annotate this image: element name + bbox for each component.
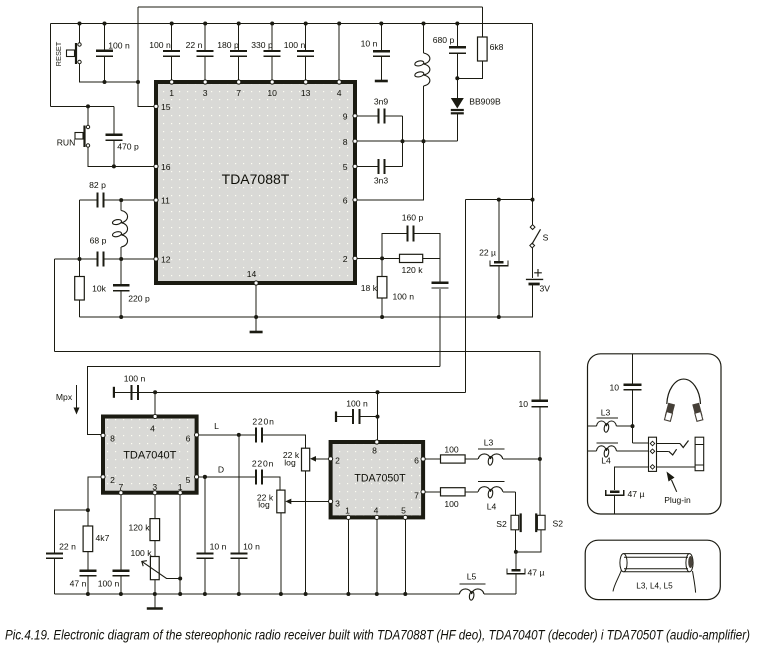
svg-text:5: 5 bbox=[343, 162, 348, 172]
jack contact 2 bbox=[657, 450, 669, 452]
svg-text:10: 10 bbox=[267, 88, 277, 98]
node rail 87.9 bbox=[86, 592, 90, 596]
node panel L3 bbox=[631, 424, 635, 428]
resistor 4k7 bbox=[87, 510, 89, 526]
svg-text:TDA7040T: TDA7040T bbox=[123, 450, 176, 462]
svg-text:1: 1 bbox=[345, 506, 350, 516]
pin U1-10 bbox=[270, 80, 274, 84]
pin U1-15 bbox=[154, 104, 158, 108]
pin U1-2 bbox=[353, 256, 357, 260]
arrow mpx bbox=[76, 385, 78, 410]
svg-text:log: log bbox=[284, 457, 296, 467]
IC U2 TDA7040T body bbox=[103, 417, 197, 493]
svg-text:L3: L3 bbox=[484, 438, 494, 448]
svg-text:5: 5 bbox=[401, 506, 406, 516]
svg-text:47 n: 47 n bbox=[70, 579, 87, 589]
plug body bbox=[695, 437, 704, 471]
inductor L1 tank bbox=[120, 200, 122, 210]
svg-text:7: 7 bbox=[236, 88, 241, 98]
svg-text:680 p: 680 p bbox=[433, 35, 455, 45]
svg-text:9: 9 bbox=[343, 112, 348, 122]
node rail 305.6 bbox=[304, 592, 308, 596]
inductor L2 VCO bbox=[423, 24, 425, 54]
capacitor 100n U2 pin7 bbox=[120, 493, 122, 570]
wire u2 pin4 bbox=[154, 392, 156, 416]
svg-text:6: 6 bbox=[186, 434, 191, 444]
node bus-c1 bbox=[103, 22, 107, 26]
node s2 join bbox=[514, 550, 518, 554]
svg-text:Mpx: Mpx bbox=[56, 392, 73, 402]
wire pin6 bbox=[355, 141, 424, 200]
jack socket bbox=[649, 437, 657, 471]
wire u3 pin5 gnd bbox=[404, 517, 406, 594]
svg-text:3: 3 bbox=[335, 499, 340, 509]
wire batt-gnd bbox=[532, 285, 534, 318]
capacitor 10n D bbox=[204, 477, 206, 552]
svg-text:220 p: 220 p bbox=[128, 294, 150, 304]
capacitor 100 n at U1 pin bbox=[171, 24, 173, 50]
svg-text:220n: 220n bbox=[252, 417, 274, 427]
pin U1-8 bbox=[353, 139, 357, 143]
pin U2-2 bbox=[101, 475, 105, 479]
resistor 100 R bbox=[423, 491, 440, 493]
wire 120k-right bbox=[423, 257, 440, 259]
svg-text:1: 1 bbox=[169, 88, 174, 98]
svg-text:4: 4 bbox=[374, 506, 379, 516]
svg-text:47 µ: 47 µ bbox=[528, 568, 545, 578]
capacitor 22u bbox=[498, 200, 500, 262]
svg-text:100 k: 100 k bbox=[130, 548, 152, 558]
capacitor 100n mpx bbox=[439, 258, 441, 281]
capacitor 220p bbox=[120, 259, 122, 284]
wire D out bbox=[197, 476, 255, 478]
svg-text:3n9: 3n9 bbox=[374, 97, 389, 107]
capacitor 22 n at U1 pin bbox=[204, 24, 206, 50]
capacitor 100n U3 vcc bbox=[335, 412, 337, 423]
svg-text:S: S bbox=[543, 233, 549, 243]
wire left rail bbox=[50, 24, 52, 107]
pin U2-6 bbox=[195, 433, 199, 437]
capacitor C2 470p bbox=[113, 106, 115, 133]
pin U2-7 bbox=[119, 491, 123, 495]
switch RUN bbox=[83, 126, 85, 148]
svg-text:68 p: 68 p bbox=[90, 236, 107, 246]
pin U1-12 bbox=[154, 257, 158, 261]
capacitor 160p loop bbox=[382, 234, 406, 259]
inductor L4 panel bbox=[588, 450, 597, 452]
pin U3-1 bbox=[346, 515, 350, 519]
svg-text:22 n: 22 n bbox=[59, 542, 76, 552]
svg-text:47 µ: 47 µ bbox=[628, 489, 645, 499]
node u2 pin4 junction bbox=[153, 390, 157, 394]
wire reset top stub bbox=[79, 24, 81, 43]
capacitor 10n L bbox=[238, 435, 240, 552]
wire pin8 bbox=[355, 140, 457, 142]
battery 3V bbox=[526, 278, 543, 280]
wire pin15 top loop bbox=[138, 6, 482, 8]
capacitor 47n bbox=[79, 570, 96, 572]
wire pin2 bbox=[355, 257, 400, 259]
capacitor 47u panel bbox=[610, 490, 619, 493]
node c2 bottom bbox=[112, 164, 116, 168]
svg-text:3V: 3V bbox=[540, 284, 551, 294]
svg-text:4k7: 4k7 bbox=[96, 533, 110, 543]
svg-text:3n3: 3n3 bbox=[374, 176, 389, 186]
svg-text:100 n: 100 n bbox=[392, 292, 414, 302]
arrow plug-in bbox=[672, 480, 677, 492]
svg-text:100 n: 100 n bbox=[98, 579, 120, 589]
wire u2 pin1 bbox=[179, 493, 181, 594]
capacitor 220n L bbox=[255, 427, 257, 442]
svg-text:8: 8 bbox=[343, 137, 348, 147]
wire run top bbox=[51, 105, 114, 107]
svg-text:11: 11 bbox=[161, 196, 170, 206]
node rail 180.2 bbox=[178, 592, 182, 596]
node pin2-18k bbox=[380, 256, 384, 260]
wire pin14 ground bbox=[255, 283, 257, 332]
pin U1-11 bbox=[154, 198, 158, 202]
node varactor top bbox=[455, 76, 459, 80]
svg-text:L5: L5 bbox=[467, 572, 477, 582]
svg-text:100 n: 100 n bbox=[124, 374, 146, 384]
svg-text:14: 14 bbox=[247, 269, 257, 279]
diode BB909B varactor bbox=[456, 78, 458, 98]
jack contact 1 bbox=[657, 443, 681, 445]
node rail 238.8 bbox=[237, 592, 241, 596]
svg-text:220n: 220n bbox=[252, 459, 274, 469]
svg-text:22 µ: 22 µ bbox=[479, 248, 496, 258]
capacitor 10u phones bbox=[532, 400, 549, 402]
ferrite rod bbox=[624, 554, 690, 572]
wire VCC bus bbox=[51, 23, 533, 25]
wire run stub bbox=[87, 106, 89, 125]
speaker S2 right bbox=[539, 459, 541, 515]
capacitor 3n3 bbox=[355, 165, 377, 167]
wire to pin15 bbox=[138, 7, 156, 106]
pin U2-5 bbox=[195, 475, 199, 479]
wire u3 pin4 gnd bbox=[376, 517, 378, 594]
svg-text:2: 2 bbox=[343, 254, 348, 264]
pin U3-4 bbox=[375, 515, 379, 519]
capacitor C1 100n (reset) bbox=[104, 24, 106, 50]
svg-text:8: 8 bbox=[372, 446, 377, 456]
potentiometer 22k log L bbox=[302, 448, 310, 471]
svg-text:2: 2 bbox=[335, 456, 340, 466]
pin U1-13 bbox=[304, 80, 308, 84]
panel headphones box bbox=[588, 354, 722, 514]
node rail 120.9 bbox=[119, 592, 123, 596]
svg-text:330 p: 330 p bbox=[251, 40, 273, 50]
wire mpx link bbox=[88, 367, 440, 435]
svg-text:S2: S2 bbox=[553, 519, 564, 529]
svg-text:Pic.4.19. Electronic diagram o: Pic.4.19. Electronic diagram of the ster… bbox=[5, 628, 750, 643]
svg-text:18 k: 18 k bbox=[361, 283, 378, 293]
resistor 18k bbox=[381, 258, 383, 276]
wire L out bbox=[197, 434, 255, 436]
capacitor 47u bbox=[515, 552, 517, 569]
capacitor 82p bbox=[80, 199, 97, 201]
wire lower vcc rail bbox=[114, 391, 466, 393]
pin U2-3 bbox=[153, 491, 157, 495]
pin U1-6 bbox=[353, 198, 357, 202]
node batt-rail bbox=[531, 198, 535, 202]
svg-text:6k8: 6k8 bbox=[490, 42, 504, 52]
node L-10n bbox=[237, 433, 241, 437]
node pin2 branch bbox=[86, 508, 90, 512]
wire U1 pin4 to bus bbox=[338, 24, 340, 83]
pin U1-9 bbox=[353, 114, 357, 118]
capacitor 100 n at U1 pin bbox=[305, 24, 307, 50]
capacitor 680p bbox=[456, 24, 458, 47]
pin U2-4 bbox=[153, 414, 157, 418]
capacitor C8 10n bbox=[380, 24, 382, 51]
svg-text:L4: L4 bbox=[487, 502, 497, 512]
svg-text:10 n: 10 n bbox=[210, 542, 227, 552]
node L3 out bbox=[538, 457, 542, 461]
IC U1 TDA7088T body bbox=[156, 82, 355, 283]
pin U1-4 bbox=[337, 80, 341, 84]
capacitor 22n bbox=[54, 510, 88, 552]
svg-text:10k: 10k bbox=[92, 284, 107, 294]
svg-text:10 n: 10 n bbox=[361, 39, 378, 49]
svg-text:22 n: 22 n bbox=[186, 40, 203, 50]
wire jack gnd bbox=[615, 467, 649, 490]
node u3 100n junction bbox=[376, 415, 380, 419]
svg-text:82 p: 82 p bbox=[89, 180, 106, 190]
svg-text:180 p: 180 p bbox=[217, 40, 239, 50]
resistor 6k8 bbox=[481, 7, 483, 37]
svg-text:RESET: RESET bbox=[54, 41, 63, 66]
node rail-18k bbox=[380, 315, 384, 319]
pin U1-3 bbox=[203, 80, 207, 84]
node tank-top bbox=[119, 198, 123, 202]
svg-text:8: 8 bbox=[110, 434, 115, 444]
pin U3-7 bbox=[421, 490, 425, 494]
node c1 bottom bbox=[103, 80, 107, 84]
svg-text:BB909B: BB909B bbox=[469, 97, 501, 107]
resistor 10k bbox=[79, 259, 81, 277]
pin U3-3 bbox=[329, 499, 333, 503]
ground symbol lower bbox=[154, 594, 156, 608]
svg-text:100: 100 bbox=[444, 499, 459, 509]
svg-text:S2: S2 bbox=[496, 519, 507, 529]
wire u3 pin8 bbox=[377, 392, 379, 442]
wire 82p left drop bbox=[79, 200, 81, 259]
potentiometer 100k bbox=[154, 541, 156, 557]
svg-text:TDA7088T: TDA7088T bbox=[222, 171, 290, 187]
wire panel to jack1 bbox=[633, 442, 649, 444]
pin U1-7 bbox=[237, 80, 241, 84]
svg-text:16: 16 bbox=[161, 162, 171, 172]
wire reset bottom bbox=[80, 64, 139, 82]
svg-text:L4: L4 bbox=[601, 456, 611, 466]
svg-text:4: 4 bbox=[150, 424, 155, 434]
capacitor 68p bbox=[55, 258, 97, 260]
wire jack to plug bbox=[657, 466, 696, 468]
wire vcc rail mid bbox=[466, 199, 533, 201]
pin U2-8 bbox=[101, 433, 105, 437]
wire vcc drop lower bbox=[465, 200, 467, 393]
IC U3 TDA7050T body bbox=[331, 442, 424, 517]
svg-text:L3: L3 bbox=[601, 408, 611, 418]
pin U3-6 bbox=[421, 457, 425, 461]
pin U3-5 bbox=[403, 515, 407, 519]
svg-text:RUN: RUN bbox=[57, 138, 76, 148]
svg-text:100 n: 100 n bbox=[108, 41, 130, 51]
capacitor 220n D bbox=[255, 469, 257, 484]
svg-text:log: log bbox=[258, 500, 270, 510]
node bus-reset bbox=[78, 22, 82, 26]
svg-text:6: 6 bbox=[343, 196, 348, 206]
node D branch bbox=[203, 475, 207, 479]
svg-text:L3, L4, L5: L3, L4, L5 bbox=[636, 582, 673, 591]
svg-text:7: 7 bbox=[414, 491, 419, 501]
node rail 376.8 bbox=[375, 592, 379, 596]
wire switch-batt bbox=[532, 248, 534, 278]
svg-text:120 k: 120 k bbox=[401, 265, 423, 275]
svg-text:100: 100 bbox=[444, 445, 459, 455]
node D-10n bbox=[203, 475, 207, 479]
svg-text:100 n: 100 n bbox=[346, 399, 368, 409]
node run-junction bbox=[86, 104, 90, 108]
wire vcc right drop bbox=[532, 24, 534, 225]
wire u3 pin1 gnd bbox=[347, 517, 349, 594]
wire tank link bbox=[55, 351, 540, 399]
node reset junction bbox=[136, 80, 140, 84]
potentiometer 22k log D bbox=[277, 490, 285, 513]
svg-text:10: 10 bbox=[609, 383, 619, 393]
svg-text:100 n: 100 n bbox=[149, 40, 171, 50]
pin U3-2 bbox=[329, 457, 333, 461]
panel rod box bbox=[585, 540, 720, 599]
capacitor 3n9 bbox=[354, 115, 356, 117]
node rail-pin14 bbox=[254, 315, 258, 319]
svg-text:3: 3 bbox=[203, 88, 208, 98]
inductor L3 bbox=[465, 458, 478, 460]
svg-text:120 k: 120 k bbox=[128, 523, 150, 533]
resistor 100 L bbox=[423, 458, 440, 460]
capacitor 180 p at U1 pin bbox=[238, 24, 240, 50]
svg-text:Plug-in: Plug-in bbox=[664, 495, 691, 505]
capacitor 330 p at U1 pin bbox=[271, 24, 273, 50]
capacitor 100n U2 vcc bbox=[113, 387, 115, 398]
svg-text:470 p: 470 p bbox=[117, 142, 139, 152]
svg-text:L: L bbox=[214, 421, 219, 431]
node 22u-top bbox=[497, 198, 501, 202]
svg-text:15: 15 bbox=[161, 102, 171, 112]
node rail 348.4 bbox=[346, 592, 350, 596]
pin U2-1 bbox=[178, 491, 182, 495]
svg-text:10: 10 bbox=[518, 399, 528, 409]
svg-text:6: 6 bbox=[414, 456, 419, 466]
pin U1-1 bbox=[170, 80, 174, 84]
node rail 154.8 bbox=[153, 592, 157, 596]
node pin8-a bbox=[401, 139, 405, 143]
svg-text:13: 13 bbox=[301, 88, 311, 98]
pin U3-8 bbox=[375, 440, 379, 444]
node pin8-b bbox=[422, 139, 426, 143]
svg-text:5: 5 bbox=[186, 475, 191, 485]
node u3 vcc junction bbox=[376, 390, 380, 394]
svg-text:100 n: 100 n bbox=[284, 40, 306, 50]
inductor L4 bbox=[465, 491, 478, 493]
svg-text:TDA7050T: TDA7050T bbox=[354, 473, 406, 485]
node pot wiper bbox=[178, 577, 182, 581]
wire gnd rail upper bbox=[80, 316, 534, 318]
resistor 120k U2 bbox=[154, 493, 156, 519]
inductor L3 panel bbox=[588, 425, 597, 427]
inductor L5 bbox=[459, 583, 485, 585]
wire 68p left drop bbox=[54, 259, 56, 351]
headphones icon bbox=[667, 379, 701, 404]
capacitor 10u panel bbox=[632, 354, 634, 384]
svg-text:10 n: 10 n bbox=[243, 542, 260, 552]
pin U1-16 bbox=[154, 164, 158, 168]
switch S bbox=[530, 225, 535, 230]
node tank-bot-l bbox=[78, 257, 82, 261]
speaker S2 left bbox=[514, 492, 516, 516]
switch RESET bbox=[75, 43, 77, 64]
svg-text:2: 2 bbox=[110, 475, 115, 485]
node rail 405.3 bbox=[403, 592, 407, 596]
svg-text:160 p: 160 p bbox=[402, 213, 424, 223]
svg-text:12: 12 bbox=[161, 255, 171, 265]
node rail 204.9 bbox=[203, 592, 207, 596]
node tank-bot-r bbox=[119, 257, 123, 261]
node rail-22u bbox=[497, 315, 501, 319]
node rail-220p bbox=[119, 315, 123, 319]
node rail 280.9 bbox=[279, 592, 283, 596]
wire lower gnd rail bbox=[54, 593, 459, 595]
pin U1-14 bbox=[254, 281, 258, 285]
svg-text:D: D bbox=[218, 465, 224, 475]
pin U1-5 bbox=[353, 164, 357, 168]
wire u2 pin2 branch bbox=[88, 477, 103, 510]
svg-text:4: 4 bbox=[337, 88, 342, 98]
resistor 120k bbox=[400, 254, 423, 262]
wire run bottom to pin16 bbox=[88, 147, 156, 166]
